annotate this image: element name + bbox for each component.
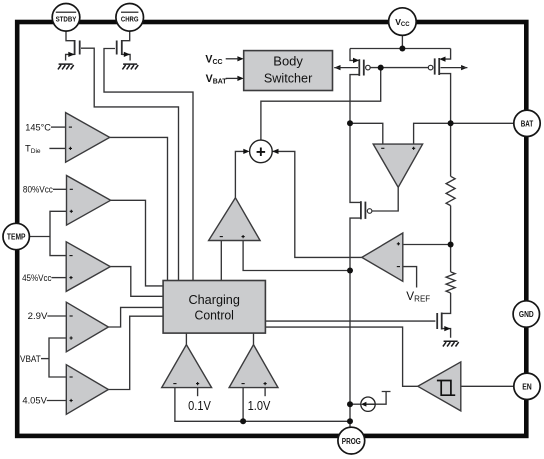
wire summing node output to gate node	[261, 68, 381, 141]
A4 minus mark	[70, 315, 73, 317]
wire comparator A9 plus stub 0.1V	[197, 388, 199, 397]
svg-text:STDBY: STDBY	[56, 15, 77, 24]
svg-text:EN: EN	[522, 382, 532, 391]
comparator A4 (2.9V)	[66, 302, 108, 352]
wire Q2 gate to Charging Control top	[104, 49, 193, 281]
junction node gate drive	[378, 65, 384, 71]
junction node prog lower	[347, 418, 353, 424]
transistor Q1 gate bar	[79, 41, 81, 55]
arrowhead Q1 source	[68, 52, 74, 57]
svg-text:Switcher: Switcher	[264, 70, 313, 85]
wire 2.9V label to comparator A4 minus	[47, 315, 66, 317]
junction node prog upper	[347, 401, 353, 407]
wire comparator A3 output to Charging Control	[110, 267, 163, 297]
wire comparator A2 output to Charging Control	[111, 200, 164, 286]
wire R1 to divider node	[450, 206, 452, 272]
wire comparator A2 plus to TEMP node	[50, 211, 67, 255]
wire Q4 source	[443, 49, 451, 60]
svg-text:1.0V: 1.0V	[248, 399, 271, 413]
A5 plus mark	[70, 399, 73, 402]
wire 145C label to comparator A1 minus	[51, 126, 66, 128]
A5 minus mark	[70, 376, 73, 378]
A8 plus mark	[397, 242, 400, 245]
svg-text:Control: Control	[195, 308, 234, 323]
wire BAT node to BAT pad	[451, 122, 514, 124]
wire comparator A4 plus to VBAT node	[49, 338, 66, 377]
junction node Vcc rail	[399, 46, 405, 52]
wire comparator A5 output to Charging Control	[108, 316, 163, 389]
arrowhead Q2 source	[124, 52, 130, 57]
wire error amp A8 plus to divider node	[403, 244, 451, 246]
pad CHRG	[116, 3, 144, 31]
wire sense node to op-amp A7 minus	[350, 123, 383, 144]
wire Q5 drain to main vertical line down to PROG	[350, 218, 361, 428]
A2 plus mark	[70, 210, 73, 213]
comparator A9 (0.1V)	[162, 345, 212, 388]
arrowhead Q4 body right	[461, 65, 467, 70]
comparator A3 (45%Vcc)	[66, 242, 110, 292]
ground at Q1	[58, 64, 74, 69]
wire Q6 source to ground	[442, 329, 451, 338]
wire PROG node to current source I1	[350, 403, 361, 405]
arrow line VBAT into box	[226, 77, 239, 79]
wire comparator A9 output to Charging Control bottom	[185, 333, 187, 345]
wire CHRG pad to Q2 drain	[122, 31, 130, 41]
wire Charging Control to EN buffer input	[266, 327, 418, 386]
wire Q1 source to ground	[66, 54, 75, 60]
svg-text:VBAT: VBAT	[20, 353, 41, 364]
wire Q4 drain down	[439, 74, 450, 124]
wire Vcc pad to rail	[401, 35, 403, 48]
wire op-amp A7 output to Q5 gate	[372, 187, 399, 211]
ground at Q6	[443, 341, 459, 346]
wire TEMP pad to node	[29, 236, 50, 238]
wire Q6 gate line to Charging Control	[266, 320, 436, 322]
wire EN buffer output to EN pad	[461, 385, 515, 387]
svg-text:Charging: Charging	[189, 292, 240, 307]
arrowhead VBAT into Body Switcher	[237, 76, 243, 81]
A1 minus mark	[69, 126, 72, 128]
comparator A5 (4.05V)	[66, 365, 108, 415]
arrowhead into summing node left	[243, 149, 249, 154]
A6 minus mark	[220, 236, 223, 238]
svg-text:PROG: PROG	[342, 437, 361, 446]
arrow line Vcc into box	[226, 58, 239, 60]
current source I1	[361, 397, 375, 411]
A9 minus mark	[173, 383, 176, 385]
comparator A2 (80%Vcc)	[67, 176, 111, 226]
svg-text:Body: Body	[273, 54, 303, 69]
wire 4.05V label to comparator A5 plus	[47, 400, 67, 402]
A7 minus mark	[381, 147, 384, 149]
svg-text:BAT: BAT	[521, 119, 534, 128]
Charging Control box	[163, 281, 265, 334]
A4 plus mark	[70, 336, 73, 339]
resistor R2	[446, 272, 455, 293]
body line Q3	[334, 67, 358, 69]
arrowhead Vcc into Body Switcher	[237, 56, 243, 61]
junction node comparator minus	[240, 418, 246, 424]
transistor Q3 gate bar	[363, 60, 365, 76]
pad Vcc	[389, 8, 417, 36]
transistor Q5 (mid PMOS) channel	[360, 201, 362, 219]
op-amp A8 (error amp, VREF)	[362, 233, 403, 281]
pad GND	[513, 301, 539, 327]
A9 plus mark	[196, 382, 199, 385]
wire error amp A8 output to summing node right input	[268, 151, 362, 257]
wire TDie label to comparator A1 plus	[49, 147, 65, 149]
svg-text:145°C: 145°C	[25, 121, 51, 132]
svg-text:TEMP: TEMP	[7, 233, 26, 242]
A8 minus mark	[397, 266, 400, 268]
wire comparator A10 minus down	[242, 388, 244, 422]
junction node sense mid	[347, 268, 353, 274]
transistor Q2 (CHRG open-drain NMOS) channel	[121, 40, 123, 55]
svg-text:GND: GND	[519, 310, 534, 319]
A2 minus mark	[70, 188, 73, 190]
wire current source I1 to T stub	[375, 392, 390, 405]
svg-text:45%Vcc: 45%Vcc	[22, 272, 52, 283]
wire STDBY pad to Q1 drain	[66, 31, 75, 41]
transistor Q4 (right PMOS) channel	[438, 58, 440, 75]
arrowhead Q3 body into Body Switcher	[334, 65, 340, 70]
arrowhead Q4 source	[439, 57, 445, 62]
A7 plus mark	[412, 147, 415, 150]
op-amp A7 (down, gate driver)	[373, 144, 422, 187]
transistor Q3 (left power PMOS) channel	[358, 59, 360, 76]
gate bubble Q3	[366, 65, 371, 70]
pad PROG	[338, 427, 365, 454]
wire resistor chain top	[450, 123, 452, 176]
hysteresis symbol in EN buffer	[437, 381, 455, 396]
comparator A10 (1.0V)	[229, 345, 278, 388]
transistor Q4 gate bar	[434, 58, 436, 74]
A10 plus mark	[264, 382, 267, 385]
pad TEMP	[3, 223, 29, 249]
ground at Q2	[122, 64, 138, 69]
Body Switcher box	[244, 51, 333, 91]
buffer A11 (EN schmitt)	[418, 362, 461, 411]
wire Q1 gate to Charging Control top	[81, 48, 179, 280]
transistor Q2 gate bar	[116, 41, 118, 55]
gate bubble Q5	[367, 209, 372, 214]
svg-text:CHRG: CHRG	[121, 15, 139, 24]
gate bubble Q4	[428, 65, 433, 70]
junction node BAT	[448, 120, 454, 126]
wire Q2 source to ground	[122, 54, 130, 60]
wire comparator A1 output to Charging Control	[110, 137, 168, 280]
A3 plus mark	[69, 276, 72, 279]
wire error amp A8 minus to VREF stub	[403, 267, 417, 288]
A6 plus mark	[242, 235, 245, 238]
wire op-amp A6 plus to sense node	[243, 241, 350, 271]
junction node divider	[448, 242, 454, 248]
transistor Q6 (prog NMOS) channel	[441, 313, 443, 330]
arrowhead Q6 source	[444, 326, 450, 331]
svg-text:4.05V: 4.05V	[22, 395, 47, 406]
op-amp A6 (up, current sense)	[209, 198, 261, 241]
wire R2 to Q6 drain	[442, 293, 451, 313]
transistor Q5 gate bar	[364, 202, 366, 219]
body line Q4	[441, 67, 468, 69]
wire comparator A10 plus stub 1.0V	[264, 388, 266, 397]
pad BAT	[514, 110, 540, 136]
A3 minus mark	[69, 255, 72, 257]
wire comparator A4 output to Charging Control	[108, 307, 163, 327]
svg-text:80%Vcc: 80%Vcc	[23, 184, 53, 195]
wire 45%Vcc label to comparator A3 plus	[52, 277, 67, 279]
resistor R1	[446, 176, 455, 205]
wire comparator A10 output to Charging Control bottom	[253, 333, 255, 345]
svg-text:2.9V: 2.9V	[28, 310, 49, 321]
arrowhead Q3 source	[353, 58, 359, 63]
wire comparator A9 minus to PROG line	[175, 388, 350, 422]
comparator A1 (145C)	[66, 113, 110, 163]
wire Q3 gate to Q4 gate	[370, 67, 430, 69]
wire BAT node to op-amp A7 plus	[414, 123, 451, 144]
wire Vcc rail	[350, 48, 451, 50]
summing node circle	[250, 140, 273, 163]
svg-text:+: +	[256, 143, 266, 162]
A1 plus mark	[69, 147, 72, 150]
wire Q3 source	[350, 49, 356, 61]
A10 minus mark	[242, 383, 245, 385]
wire op-amp A6 output to summing node	[235, 151, 245, 197]
wire op-amp A6 minus to Charging Control top	[220, 241, 222, 281]
transistor Q1 (STDBY open-drain NMOS) channel	[74, 40, 76, 55]
pad EN	[514, 373, 540, 399]
svg-text:0.1V: 0.1V	[188, 399, 211, 413]
junction node sense top	[347, 120, 353, 126]
wire Q3 drain down	[350, 75, 359, 124]
wire VBAT label to node	[41, 358, 49, 360]
arrowhead into summing node right	[272, 149, 278, 154]
wire Q5 source from sense line	[350, 123, 361, 202]
pad STDBY	[52, 3, 80, 31]
transistor Q6 gate bar	[436, 313, 438, 329]
wire 80%Vcc label to comparator A2 minus	[53, 188, 67, 190]
